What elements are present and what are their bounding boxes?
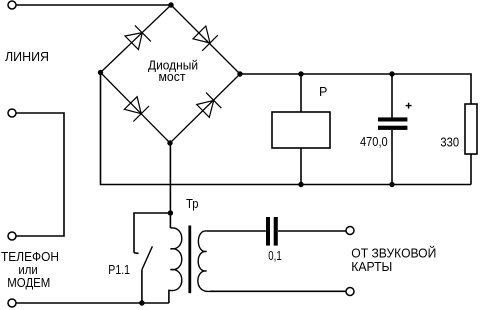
svg-text:ЛИНИЯ: ЛИНИЯ — [5, 50, 49, 64]
terminal line top-left — [8, 1, 16, 9]
svg-text:Р: Р — [319, 85, 327, 99]
capacitor C2 0,1 plates — [266, 217, 278, 246]
wire arm bottom-right — [170, 74, 240, 143]
wire line top — [16, 4, 171, 6]
node transformer branch — [168, 210, 173, 215]
svg-text:или: или — [18, 263, 37, 277]
terminal sound bottom — [346, 288, 354, 296]
diode D1 top-left arm — [125, 25, 151, 49]
node bridge left — [98, 70, 103, 75]
terminal phone 2 — [8, 299, 16, 307]
terminal sound top — [346, 227, 354, 235]
transformer secondary winding — [198, 231, 210, 291]
wire contact branch top — [134, 213, 170, 253]
plus sign — [406, 103, 412, 109]
wire bridge bottom drop — [169, 143, 171, 228]
wire line2 to phone — [16, 113, 64, 236]
wire secondary to terminal — [278, 230, 346, 232]
transformer core — [188, 226, 191, 294]
wire secondary top lead — [207, 230, 266, 232]
svg-text:Тр: Тр — [186, 197, 199, 211]
svg-text:ТЕЛЕФОН: ТЕЛЕФОН — [1, 250, 59, 264]
wire arm left-top — [101, 5, 172, 73]
svg-text:470,0: 470,0 — [360, 135, 388, 149]
diode D3 bottom-left arm — [124, 97, 149, 122]
svg-text:0,1: 0,1 — [268, 249, 281, 263]
terminal line 2 — [8, 109, 16, 117]
node cap top — [389, 71, 394, 76]
svg-text:МОДЕМ: МОДЕМ — [7, 276, 50, 290]
svg-text:330: 330 — [440, 135, 459, 150]
wire arm left-bottom — [101, 73, 171, 144]
svg-text:мост: мост — [159, 70, 186, 84]
node cap bottom — [389, 182, 394, 187]
contact blade P1.1 — [142, 246, 153, 269]
wire bottom — [16, 302, 169, 304]
wire arm top-right — [171, 5, 240, 74]
wire secondary bottom lead — [210, 290, 346, 292]
node relay top — [298, 71, 303, 76]
transformer primary winding — [170, 228, 181, 291]
wire cap bottom — [391, 130, 393, 185]
relay coil P — [272, 112, 330, 148]
resistor 330 — [465, 104, 477, 154]
wire cap top — [391, 74, 393, 117]
wire resistor bottom — [470, 154, 472, 185]
node contact bottom — [139, 300, 144, 305]
node bridge right — [237, 71, 242, 76]
diode D4 bottom-right arm — [197, 93, 222, 118]
node bridge bottom — [167, 140, 172, 145]
node relay bottom — [298, 182, 303, 187]
diode D2 top-right arm — [193, 26, 218, 51]
svg-text:КАРТЫ: КАРТЫ — [351, 260, 392, 274]
wire primary bottom lead — [169, 290, 171, 303]
wire relay top — [300, 74, 302, 112]
node bridge top — [168, 2, 173, 7]
wire dc plus rail and resistor top lead — [240, 74, 471, 104]
wire relay bottom — [300, 148, 302, 185]
svg-text:ОТ ЗВУКОВОЙ: ОТ ЗВУКОВОЙ — [351, 246, 436, 261]
svg-text:Р1.1: Р1.1 — [108, 263, 130, 277]
diode bridge arms — [101, 5, 241, 143]
contact fixed tick — [134, 252, 139, 255]
capacitor C1 470,0 plates — [378, 117, 407, 129]
terminal phone 1 — [8, 232, 16, 240]
wire contact lower lead — [141, 270, 143, 303]
wire bridge left drop and dc minus rail — [101, 73, 472, 185]
